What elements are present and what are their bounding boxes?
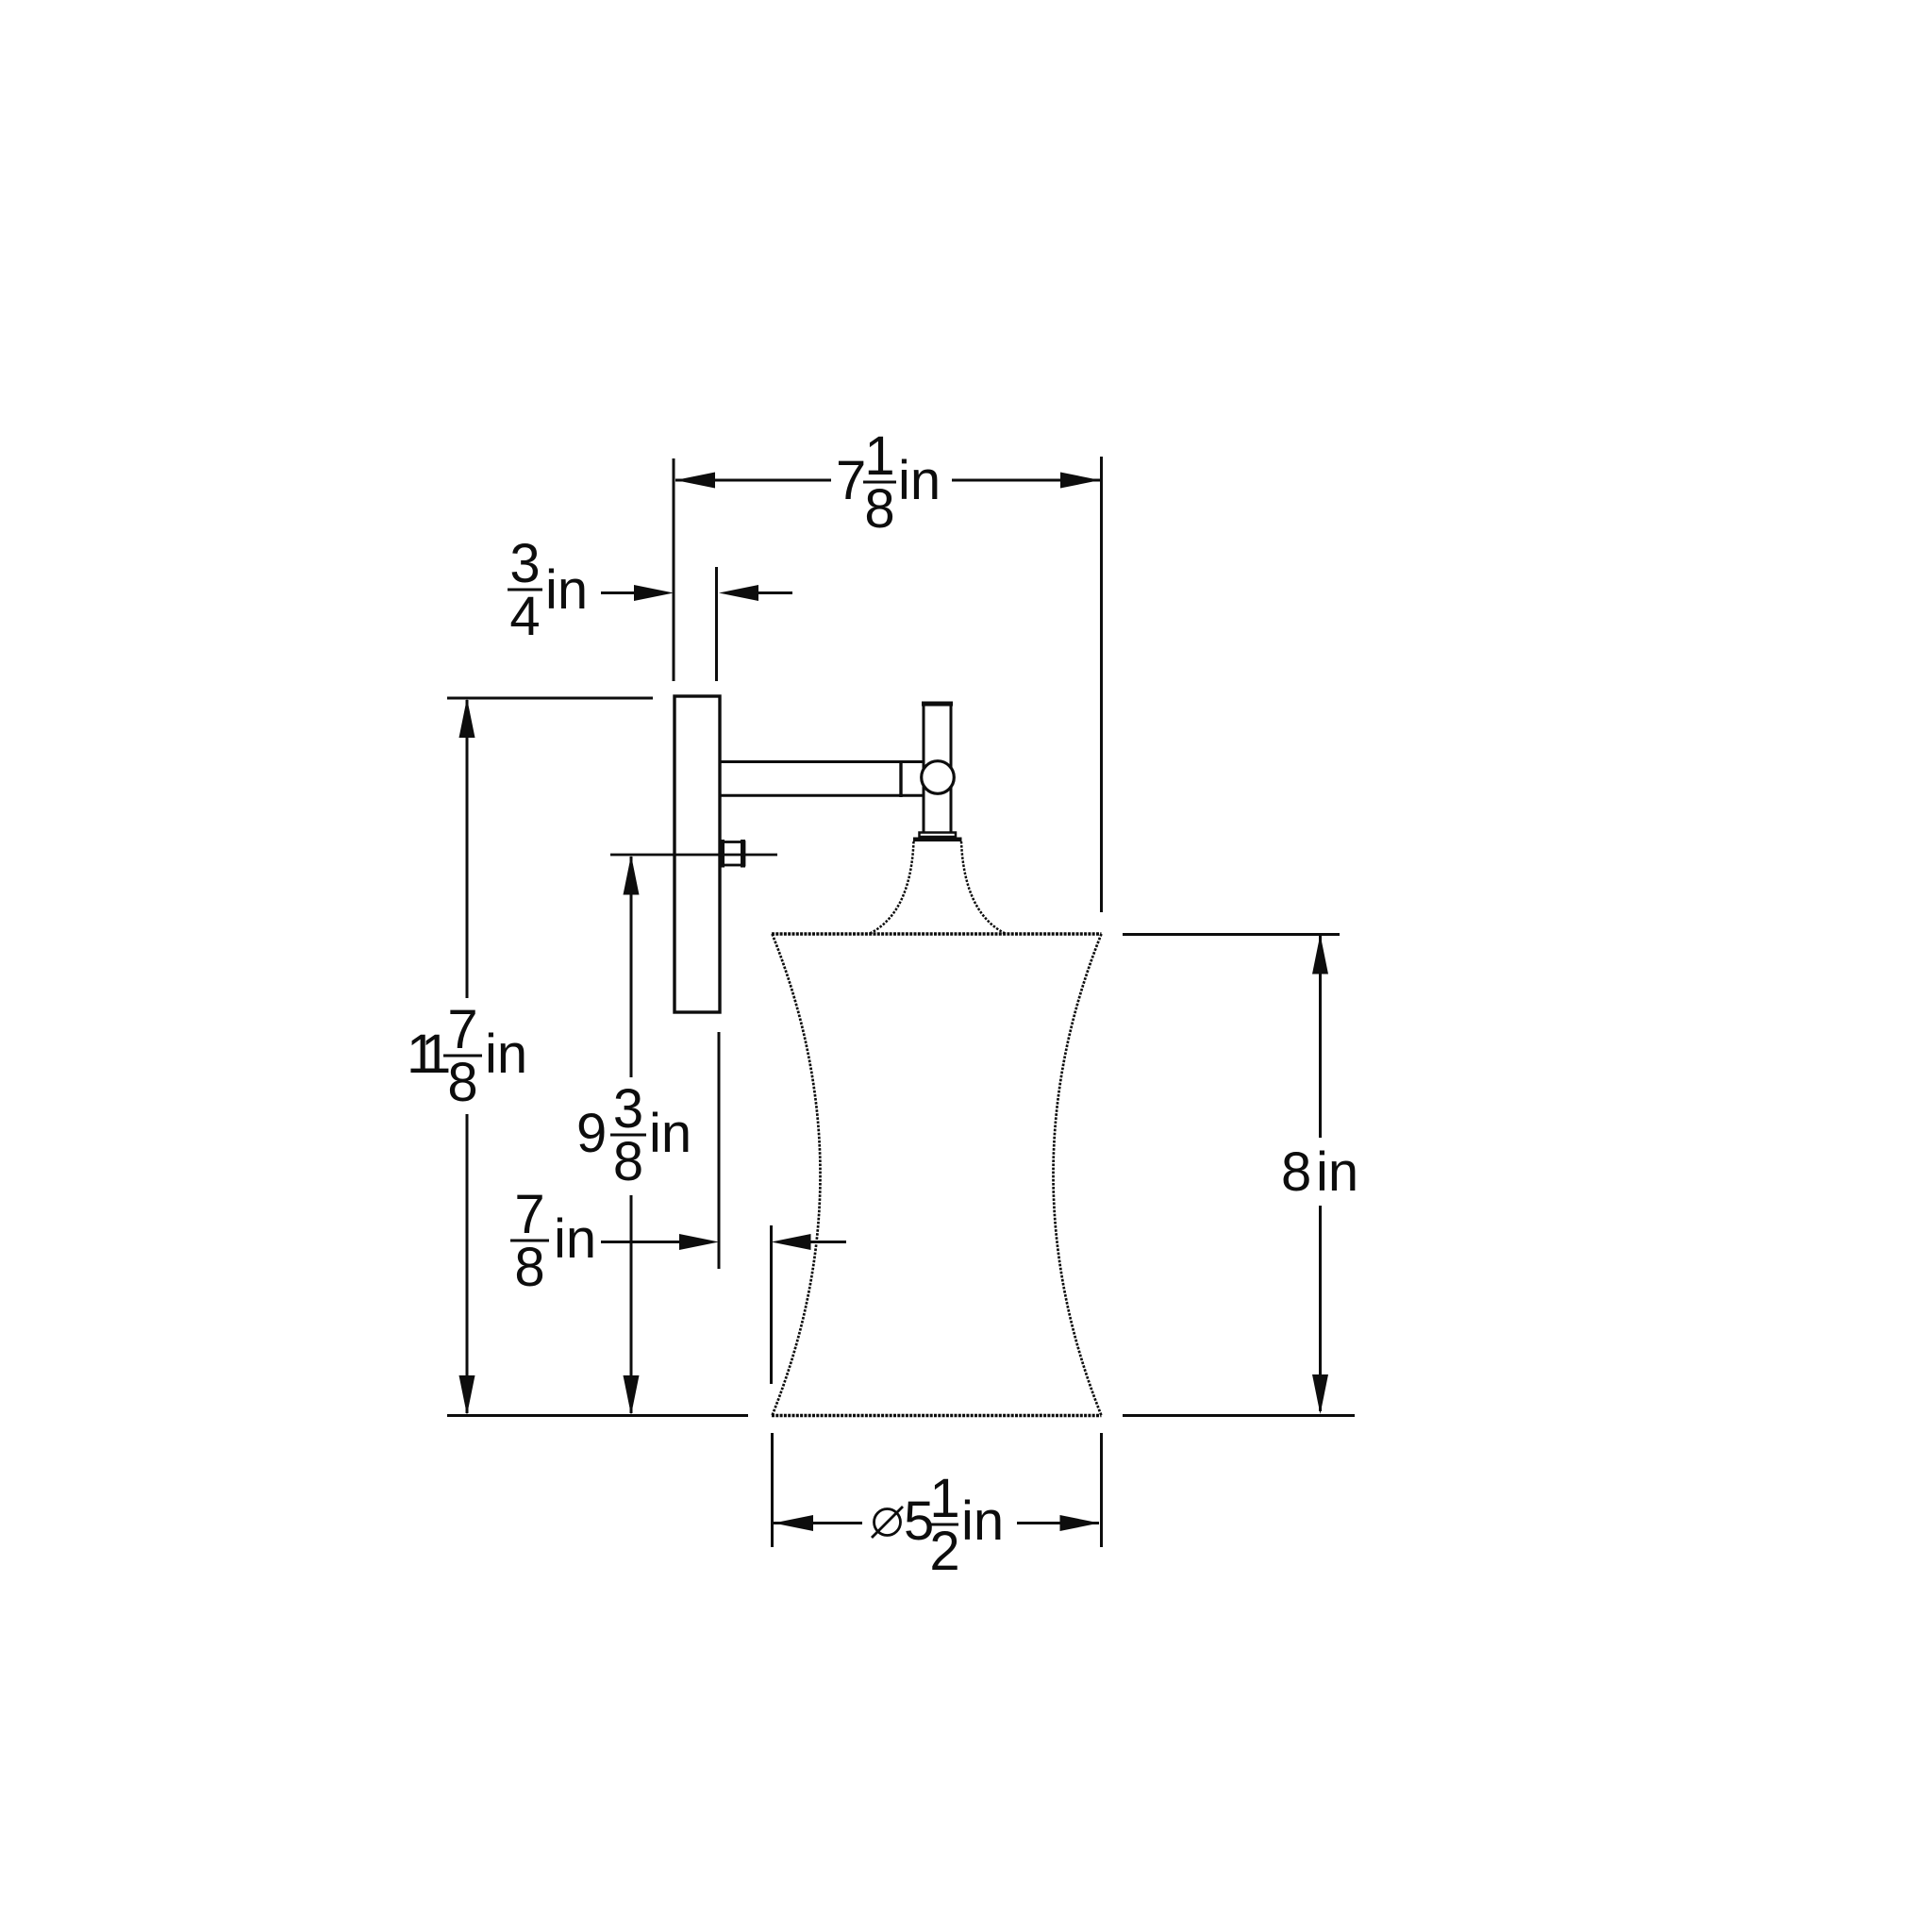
diameter symbol slash (872, 1507, 903, 1538)
arrowhead 3/4 right (points left at plate right face) (719, 585, 758, 601)
leader line 3/4 in, left tail (601, 591, 640, 594)
svg-text:7: 7 (836, 450, 866, 511)
label 7/8 in (514, 1184, 596, 1298)
fraction bar 3/4 (508, 589, 542, 591)
dimension line 9 3/8 in, lower segment (630, 1195, 633, 1413)
label 11 7/8 in (407, 999, 527, 1113)
label 7 1/8 in (836, 425, 941, 540)
svg-text:2: 2 (929, 1521, 959, 1582)
mounting screw right flange (741, 840, 745, 868)
label 3/4 in (509, 533, 588, 647)
dimension line 11 7/8 in, lower segment (466, 1114, 469, 1413)
label 8 in (1281, 1141, 1358, 1203)
fraction bar 1/8 (863, 481, 896, 484)
svg-text:4: 4 (509, 586, 540, 647)
ground line, left segment (447, 1414, 748, 1417)
ball joint (922, 761, 955, 794)
dimension line 8 in, upper segment (1319, 936, 1322, 1138)
extension line: shade right (dia 5 1/2 dim) (1100, 1433, 1103, 1547)
fraction bar 11 7/8 (443, 1055, 482, 1058)
post left edge (923, 703, 925, 832)
extension line: shade left (dia 5 1/2 dim) (771, 1433, 774, 1547)
arrowhead 11 7/8 bottom (points down) (459, 1375, 475, 1415)
mounting screw body (721, 842, 745, 866)
arrowhead 11 7/8 top (points up) (459, 698, 475, 738)
shade left profile (dotted) (773, 934, 821, 1416)
dimension line 7 1/8 in, right segment (952, 479, 1100, 482)
extension line: wall face (left of 7 1/8 dim and 3/4 dim) (673, 458, 675, 681)
arrowhead 7/8 right (points left at shade edge ext) (772, 1234, 811, 1250)
dimension line dia 5 1/2 in, left segment (774, 1522, 862, 1524)
arrowhead 9 3/8 bottom (points down) (624, 1375, 640, 1415)
arm top edge (721, 760, 924, 763)
svg-text:9: 9 (576, 1103, 607, 1164)
svg-text:8: 8 (514, 1237, 544, 1298)
arm bottom edge (721, 794, 924, 797)
shade right profile (dotted) (1054, 934, 1102, 1416)
svg-text:8: 8 (613, 1131, 643, 1192)
label 9 3/8 in (576, 1078, 691, 1192)
arrowhead 8 in top (points up) (1312, 935, 1328, 974)
wall plate (675, 696, 720, 1012)
extension line: shade right / 7 1/8 dim right (1100, 457, 1103, 912)
ground line, right segment (1123, 1414, 1355, 1417)
svg-text:11: 11 (407, 1024, 449, 1085)
extension line: plate right face below plate (7/8 dim left) (718, 1032, 721, 1269)
extension line: plate right face (3/4 dim) (715, 567, 718, 681)
svg-text:in: in (649, 1103, 691, 1164)
extension line: shade left edge (7/8 dim right) (770, 1225, 773, 1384)
dimension line 7 1/8 in, left segment (675, 479, 831, 482)
svg-text:in: in (485, 1024, 527, 1085)
shade top edge (dotted) (772, 932, 1102, 935)
leader line 7/8 in, left tail (601, 1241, 682, 1243)
socket collar upper (920, 833, 957, 838)
diameter symbol circle (874, 1509, 901, 1536)
svg-text:8: 8 (1281, 1141, 1311, 1203)
svg-text:in: in (554, 1208, 596, 1270)
arrowhead dia 5 1/2 left (points left) (774, 1515, 813, 1531)
svg-text:8: 8 (447, 1052, 477, 1113)
bell holder right profile (dotted) (961, 841, 1006, 934)
dimension line 9 3/8 in, upper segment (630, 857, 633, 1077)
dimension line 11 7/8 in, upper segment (466, 700, 469, 998)
post top cap (922, 702, 953, 707)
extension line: 9 3/8 dim top (screw centerline) (610, 854, 777, 857)
extension line: 11 7/8 dim top (plate top) (447, 697, 653, 700)
fraction bar 5 1/2 (931, 1524, 958, 1526)
svg-text:in: in (1316, 1141, 1358, 1203)
svg-text:8: 8 (864, 478, 894, 540)
arrowhead dia 5 1/2 right (points right) (1060, 1515, 1100, 1531)
socket collar lower (913, 838, 962, 842)
svg-text:in: in (545, 559, 588, 621)
arrowhead 8 in bottom (points down) (1312, 1374, 1328, 1414)
extension line: shade top right (8 in dim top) (1123, 933, 1340, 936)
arrowhead 9 3/8 top (points up) (624, 856, 640, 895)
arrowhead 7 1/8 left (points left) (675, 473, 715, 489)
arrowhead 3/4 left (points right at plate left face) (634, 585, 674, 601)
fraction bar 7/8 (510, 1240, 549, 1242)
mounting screw left flange (720, 840, 724, 868)
shade bottom edge (dotted) (772, 1414, 1102, 1417)
bell holder left profile (dotted) (870, 841, 914, 934)
post right edge (950, 703, 953, 832)
dimension line dia 5 1/2 in, right segment (1017, 1522, 1099, 1524)
leader line 7/8 in, right tail (810, 1241, 846, 1243)
dimension line 8 in, lower segment (1319, 1206, 1322, 1411)
fraction bar 9 3/8 (610, 1134, 646, 1137)
svg-text:in: in (961, 1491, 1004, 1552)
leader line 3/4 in, right tail (757, 591, 792, 594)
arrowhead 7/8 left (points right at plate face ext) (679, 1234, 719, 1250)
arrowhead 7 1/8 right (points right) (1060, 473, 1100, 489)
svg-text:in: in (898, 450, 941, 511)
arm end cap (899, 760, 902, 797)
